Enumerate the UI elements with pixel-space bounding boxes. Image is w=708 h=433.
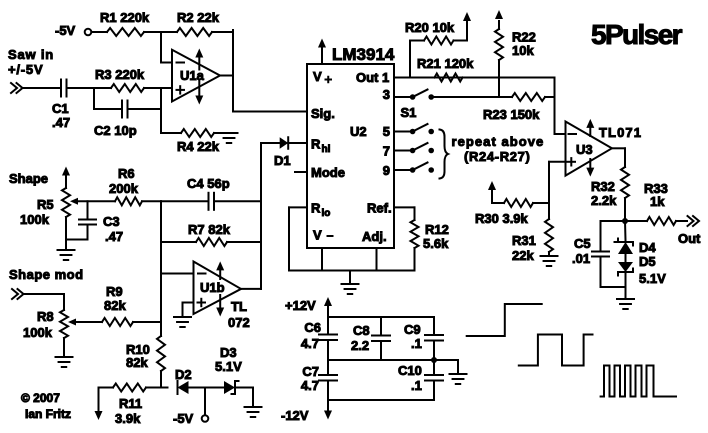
svg-text:100k: 100k xyxy=(23,325,53,340)
svg-text:D4: D4 xyxy=(639,240,656,255)
svg-text:-5V: -5V xyxy=(173,411,194,426)
svg-text:Out: Out xyxy=(678,231,701,246)
svg-text:-5V: -5V xyxy=(55,23,76,38)
svg-text:U3: U3 xyxy=(576,142,593,157)
svg-text:U2: U2 xyxy=(350,124,367,139)
svg-text:100k: 100k xyxy=(20,212,50,227)
svg-text:R30 3.9k: R30 3.9k xyxy=(475,211,529,226)
svg-text:LM3914: LM3914 xyxy=(332,45,395,64)
svg-text:R7 82k: R7 82k xyxy=(188,222,231,237)
svg-text:TL: TL xyxy=(231,299,247,314)
svg-text:82k: 82k xyxy=(126,355,148,370)
svg-text:9: 9 xyxy=(383,163,390,178)
svg-text:D2: D2 xyxy=(175,367,192,382)
svg-text:R31: R31 xyxy=(512,233,536,248)
svg-text:3: 3 xyxy=(383,87,390,102)
svg-text:1k: 1k xyxy=(650,194,665,209)
svg-text:C4 56p: C4 56p xyxy=(187,176,230,191)
svg-text:V: V xyxy=(313,69,322,84)
svg-text:R21 120k: R21 120k xyxy=(417,56,474,71)
svg-text:5.6k: 5.6k xyxy=(423,236,449,251)
svg-text:C9: C9 xyxy=(404,322,421,337)
svg-text:S1: S1 xyxy=(401,105,417,120)
svg-text:R: R xyxy=(311,137,321,152)
svg-text:C3: C3 xyxy=(103,214,120,229)
svg-text:D3: D3 xyxy=(220,345,237,360)
svg-text:R9: R9 xyxy=(106,284,123,299)
svg-text:TL071: TL071 xyxy=(599,125,642,140)
svg-text:C5: C5 xyxy=(574,236,591,251)
svg-text:Shape: Shape xyxy=(9,171,48,186)
svg-text:3.9k: 3.9k xyxy=(115,411,141,426)
svg-text:.1: .1 xyxy=(411,378,422,393)
svg-text:C1: C1 xyxy=(52,101,69,116)
svg-text:Out 1: Out 1 xyxy=(356,70,389,85)
svg-text:-12V: -12V xyxy=(281,408,309,423)
svg-text:+/-5V: +/-5V xyxy=(8,62,43,77)
svg-text:C6: C6 xyxy=(304,320,321,335)
svg-text:5Pulser: 5Pulser xyxy=(591,19,683,50)
svg-text:Mode: Mode xyxy=(311,165,345,180)
svg-text:Adj.: Adj. xyxy=(362,229,387,244)
svg-text:repeat above: repeat above xyxy=(452,134,545,149)
svg-text:4.7: 4.7 xyxy=(301,378,319,393)
svg-text:Ref.: Ref. xyxy=(367,201,392,216)
svg-text:Shape mod: Shape mod xyxy=(9,267,84,282)
svg-text:5.1V: 5.1V xyxy=(639,271,666,286)
svg-text:4.7: 4.7 xyxy=(301,336,319,351)
svg-text:© 2007: © 2007 xyxy=(21,391,60,405)
svg-text:10k: 10k xyxy=(512,43,534,58)
svg-text:2.2: 2.2 xyxy=(351,338,369,353)
svg-text:22k: 22k xyxy=(512,248,534,263)
svg-text:7: 7 xyxy=(383,144,390,159)
svg-text:C7: C7 xyxy=(302,364,319,379)
svg-text:R12: R12 xyxy=(425,222,449,237)
svg-text:R1 220k: R1 220k xyxy=(100,10,150,25)
svg-text:Saw in: Saw in xyxy=(8,47,54,62)
svg-text:lo: lo xyxy=(322,208,331,219)
svg-text:R23 150k: R23 150k xyxy=(483,107,540,122)
svg-text:200k: 200k xyxy=(109,181,139,196)
svg-text:R3 220k: R3 220k xyxy=(95,67,145,82)
svg-text:+12V: +12V xyxy=(285,298,316,313)
svg-text:R20 10k: R20 10k xyxy=(405,20,455,35)
svg-text:R11: R11 xyxy=(119,396,142,411)
svg-text:2.2k: 2.2k xyxy=(591,193,617,208)
svg-text:U1a: U1a xyxy=(180,68,205,83)
svg-text:5: 5 xyxy=(383,124,390,139)
svg-text:C10: C10 xyxy=(398,363,422,378)
svg-text:hi: hi xyxy=(322,144,331,155)
svg-text:D1: D1 xyxy=(274,153,291,168)
svg-text:R6: R6 xyxy=(118,166,135,181)
svg-text:072: 072 xyxy=(228,315,250,330)
svg-text:Ian Fritz: Ian Fritz xyxy=(25,407,71,421)
svg-text:R: R xyxy=(311,201,321,216)
svg-text:R32: R32 xyxy=(591,179,615,194)
svg-text:R2 22k: R2 22k xyxy=(177,10,220,25)
svg-text:.47: .47 xyxy=(105,229,123,244)
svg-text:.47: .47 xyxy=(52,115,70,130)
svg-text:.01: .01 xyxy=(572,251,590,266)
svg-text:82k: 82k xyxy=(104,298,126,313)
svg-text:5.1V: 5.1V xyxy=(215,359,242,374)
svg-text:Sig.: Sig. xyxy=(311,106,335,121)
svg-text:R5: R5 xyxy=(37,197,54,212)
svg-text:C2 10p: C2 10p xyxy=(94,123,137,138)
svg-text:.1: .1 xyxy=(411,336,422,351)
svg-text:V: V xyxy=(313,228,322,243)
svg-text:D5: D5 xyxy=(639,254,656,269)
svg-text:(R24-R27): (R24-R27) xyxy=(464,149,531,164)
svg-text:R8: R8 xyxy=(37,309,54,324)
svg-text:U1b: U1b xyxy=(200,280,225,295)
svg-text:R4 22k: R4 22k xyxy=(177,139,220,154)
svg-text:C8: C8 xyxy=(353,323,370,338)
